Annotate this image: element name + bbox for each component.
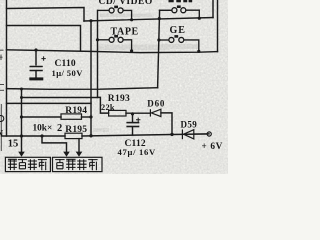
junction CD switch drop on L1: [130, 18, 133, 21]
switch LINE (label cut): [172, 8, 199, 19]
svg-text:2: 2: [57, 123, 62, 134]
scan smudges: [93, 14, 198, 133]
junction line A on L1: [89, 19, 92, 22]
box mute control 静音控制: [5, 157, 50, 171]
switch GE: [159, 37, 199, 51]
wire line B vertical: [97, 10, 99, 97]
svg-text:22k: 22k: [101, 103, 115, 112]
junction V2 R194: [20, 115, 23, 118]
svg-text:10k×: 10k×: [33, 123, 53, 133]
resistor R194: [61, 114, 82, 119]
junction V2 y97: [20, 96, 23, 99]
junction line C on L1: [158, 17, 161, 20]
junction GE left on line C: [157, 38, 160, 41]
box volume control 音量控制: [53, 157, 103, 171]
arrow 1 into volume box: [63, 152, 70, 157]
wire C110 top lead: [35, 50, 37, 65]
wire R195 bottom tap to volume arrow: [78, 139, 80, 153]
wire pin15 / R195 feed: [2, 135, 66, 137]
glyphs 静音控制: [8, 159, 47, 170]
wire R195 left tee down to volume arrow: [42, 136, 67, 152]
junction C112 top: [131, 112, 134, 115]
wire H1 pin wire top: [7, 8, 85, 22]
junction R194 line A: [89, 115, 92, 118]
wire V2 mute drop: [21, 89, 23, 152]
svg-text:GE: GE: [170, 25, 186, 36]
wire R194 left: [22, 116, 62, 118]
capacitor C112: [126, 123, 139, 127]
wire C112 bottom lead: [132, 127, 134, 135]
wire V1 left vertical bus: [6, 0, 8, 136]
C110 plus sign: [41, 56, 45, 60]
junction V2 pin15 wire: [20, 134, 23, 137]
wire y103 branch: [7, 102, 92, 104]
wire line A vertical: [90, 21, 92, 134]
svg-text:+ 6V: + 6V: [202, 142, 223, 152]
wire R195 right / bottom rail to +6V: [82, 134, 209, 136]
wire D60 output drop: [161, 113, 172, 134]
resistor R195: [65, 133, 82, 138]
junction D60 drop on bottom rail: [170, 133, 173, 136]
wire C112 top lead: [132, 114, 134, 122]
wire H3 supply rail: [7, 50, 218, 53]
junction LINE switch drop on L1: [198, 17, 201, 20]
svg-text:R194: R194: [65, 106, 87, 116]
arrow 2 into volume box: [76, 152, 83, 157]
svg-text:1μ/ 50V: 1μ/ 50V: [52, 68, 84, 78]
wire V5 up to top edge: [212, 0, 214, 18]
IC edge fragment at left: [0, 50, 4, 151]
wire H2 second pin wire: [7, 26, 81, 51]
junction TAPE drop on rail: [130, 49, 133, 52]
arrow into mute box: [18, 152, 25, 157]
wire C110 lower lead: [35, 71, 37, 77]
resistor R193: [109, 110, 126, 116]
svg-text:CD/ VIDEO: CD/ VIDEO: [99, 0, 153, 7]
switch TAPE: [98, 37, 132, 51]
junction TAPE left on line B: [96, 38, 99, 41]
wire V6 rail up to top edge: [217, 0, 219, 52]
wire line C vertical: [158, 10, 160, 87]
diode D59: [182, 129, 207, 139]
junction R195 line A bottom: [89, 134, 92, 137]
svg-text:15: 15: [8, 138, 18, 149]
capacitor C110: [29, 67, 43, 79]
wire y97 branch: [22, 97, 98, 99]
wire L1 long horizontal to switches: [84, 18, 213, 22]
svg-text:D60: D60: [147, 99, 165, 109]
C112 plus sign: [136, 118, 140, 122]
label dashes cut at top edge: [169, 0, 193, 2]
junction V2 top on H4: [20, 88, 23, 91]
svg-text:D59: D59: [181, 120, 198, 130]
svg-text:47μ/ 16V: 47μ/ 16V: [118, 147, 156, 157]
svg-text:N: N: [0, 129, 4, 139]
wire H4 long lower horizontal: [7, 88, 158, 90]
IC letters cut at edge: [0, 116, 4, 122]
diode D60: [150, 109, 161, 116]
terminal +6V: [207, 132, 211, 136]
junction C110 on rail: [34, 48, 37, 51]
switch CD/VIDEO: [98, 8, 132, 20]
wire line C top corner to LINE switch: [160, 9, 172, 11]
svg-text:TAPE: TAPE: [111, 26, 139, 37]
glyphs 音量控制: [55, 159, 97, 170]
junction R195 tee: [40, 134, 43, 137]
wire R193 to D60: [126, 112, 150, 114]
svg-text:R195: R195: [65, 125, 87, 135]
paper background: [0, 0, 228, 174]
junction GE drop on rail: [197, 50, 200, 53]
wire R194 right: [82, 116, 92, 118]
wire line B jog feeding R193: [98, 97, 109, 113]
